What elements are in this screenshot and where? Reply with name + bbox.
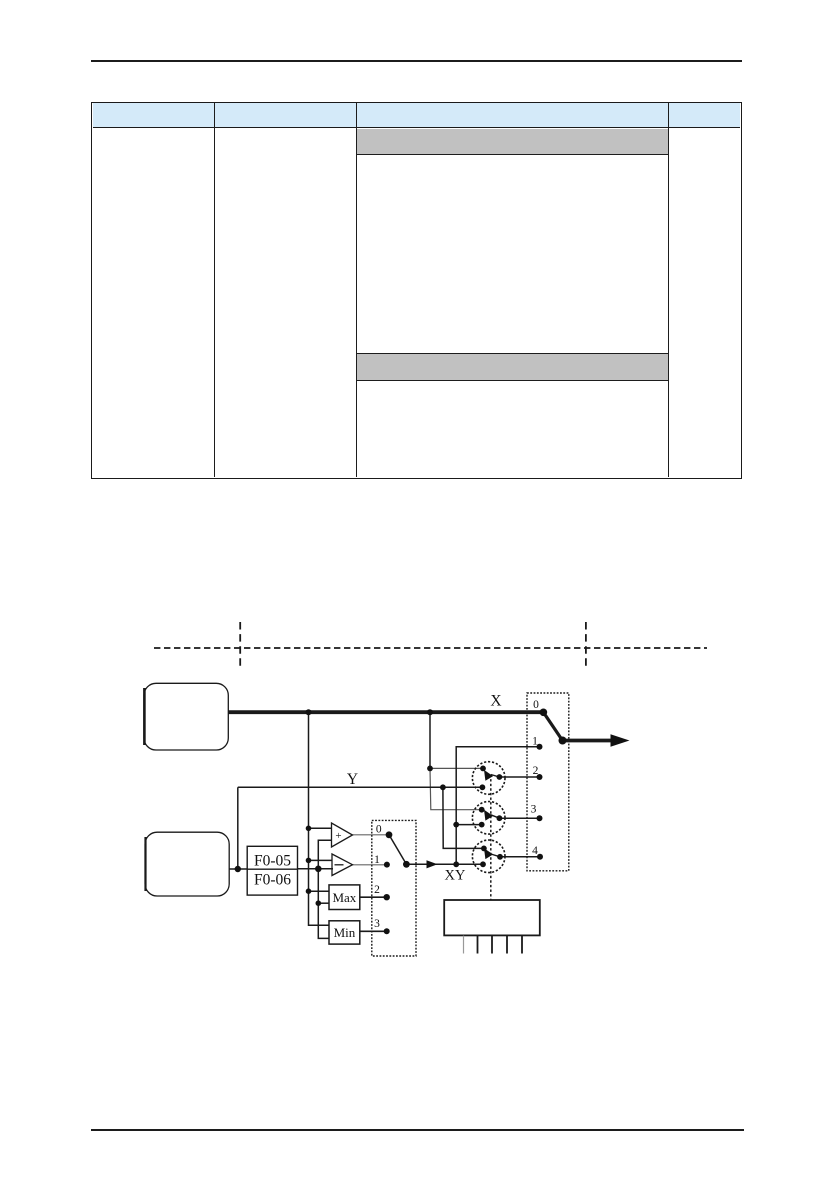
wire: A to subtractor upper input [309,859,333,861]
circle3 right dot [497,854,503,860]
SW2 terminal 0 [540,709,548,717]
junction aux wire to Y riser [235,866,241,872]
circle3 wiper [491,854,500,857]
terminal pin 2 [477,936,479,954]
circle1 upper dot [480,766,486,772]
circle3 lower dot [480,861,486,867]
wire: X to circle1 upper input [430,767,483,769]
wire: XY output run to circle3 lower input [406,863,483,865]
circle2 arrowhead [484,810,493,821]
wire: A to Max upper input [309,890,330,892]
junction X to circle1 [427,766,433,772]
SW1 terminal 2 [384,894,390,900]
wire: heavy left edge of source box [143,688,146,745]
SW1 terminal 1 [384,862,390,868]
minus mark inside subtractor [335,864,344,866]
svg-text:1: 1 [532,736,538,748]
dashed gang control line [490,775,492,901]
parameter table outer border [91,102,742,479]
svg-text:4: 4 [532,845,538,857]
output arrowhead [611,734,630,746]
wire: B to Max lower input [318,902,329,904]
wire: vertical from X line to multiplier column [429,712,431,768]
junction on X at multiplier column [427,709,433,715]
junction B Max [316,900,322,906]
terminal pin 1 (gray) [463,936,465,954]
wire: circle2 to terminal 3 [499,817,539,819]
circle1 lower dot [480,784,486,790]
bottom horizontal rule [91,1129,744,1131]
SW1 terminal 3 [384,928,390,934]
wire: XY to circle2 lower input [456,824,482,826]
rounded box (aux channel source) [145,832,229,896]
circle2 lower dot [479,822,485,828]
circle3 upper dot [481,846,487,852]
svg-text:X: X [490,693,501,710]
gray sub-header bar 1 in column 3 [357,129,668,155]
wire: heavy left edge of aux box [144,837,146,891]
table column border 2 [356,103,357,477]
svg-text:1: 1 [374,854,380,866]
svg-text:3: 3 [374,918,380,930]
wire: circle1 to terminal 2 [499,776,539,778]
gray sub-header bar 2 in column 3 [357,353,668,381]
table column border 1 [214,103,215,477]
svg-text:XY: XY [445,868,466,884]
svg-text:Y: Y [347,771,358,788]
svg-text:2: 2 [533,765,539,777]
SW2 terminal 1 [537,744,543,750]
selector SW2 arm (thick) [543,712,562,740]
svg-text:0: 0 [376,823,382,835]
circle3 arrowhead [484,848,493,859]
terminal pin 4 [506,936,508,954]
rounded box (main channel source) [144,683,228,750]
circle2 wiper [491,815,500,818]
svg-text:F0-06: F0-06 [254,871,291,888]
multiplier circle 1 (dashed) [472,762,505,795]
junction on X at A [306,709,312,715]
circle2 right dot [497,815,503,821]
Min box [329,921,360,944]
wire: A to adder upper input [309,827,332,829]
junction XY riser circle3 [453,861,459,867]
svg-text:F0-05: F0-05 [254,853,291,870]
XY direction arrow [427,860,438,868]
selector SW1 arm [389,835,406,865]
junction A adder [306,826,312,832]
terminal pin 3 [491,936,493,954]
svg-text:Max: Max [332,890,356,905]
thick output wire [563,739,614,743]
multiplier circle 2 (dashed) [472,802,505,835]
junction A subtractor [306,858,312,864]
wire: Y vertical riser [237,787,239,869]
circle1 right dot [497,774,503,780]
selector box SW1 (dotted) [372,820,416,956]
wire: subtractor output to selector1 terminal 1 [353,864,387,866]
wire: vertical A from X line down to Min input [309,712,330,925]
svg-text:+: + [335,830,341,842]
SW1 pivot [403,861,410,868]
SW2 pivot [559,737,567,745]
thick wire X (main frequency) [228,710,543,714]
SW1 terminal 0 [386,831,393,838]
wire: aux source to F0-05 box [229,868,246,870]
subtractor triangle [332,854,353,876]
wire: adder output to selector1 terminal 0 [353,834,390,836]
wire Y horizontal to circle1 lower input [238,786,483,788]
svg-text:2: 2 [374,884,380,896]
junction B fed by F0 wire [315,866,322,873]
wire: Y branch down to circle3 upper input [443,787,484,848]
wire: vertical B feeding adder/Max/Min lower inputs [318,840,331,938]
circle1 arrowhead [484,770,493,781]
svg-text:Min: Min [334,925,356,940]
multiplier circle 3 (dashed) [472,840,505,873]
wire: Max output to selector1 terminal 2 [360,896,387,898]
wire: circle3 to terminal 4 [500,856,540,858]
top horizontal rule [91,60,742,62]
junction A Max [306,888,312,894]
dashed separator horizontal line [154,647,707,649]
wire: XY riser to selector terminal 1 [456,747,539,865]
svg-text:0: 0 [533,699,539,711]
junction XY riser circle2 [453,822,459,828]
wire: Min output to selector1 terminal 3 [360,930,387,932]
wire: X down to circle2 upper input [430,768,482,809]
terminal pin 5 [521,936,523,954]
SW2 terminal 3 [537,815,543,821]
circle2 upper dot [479,807,485,813]
table header row (light blue) [93,103,740,128]
junction Y wire branch [440,784,446,790]
F0-05 / F0-06 parameter box [247,846,297,895]
terminal block [444,900,540,935]
svg-text:3: 3 [531,804,537,816]
selector box SW2 (dotted) [527,693,569,871]
wire: F0 output to subtractor [298,868,333,870]
SW2 terminal 4 [537,854,543,860]
table column border 3 [668,103,669,477]
Max box [329,885,360,910]
SW2 terminal 2 [537,774,543,780]
adder triangle [332,823,353,847]
circle1 wiper [491,775,500,778]
dashed separator tick right [585,622,587,666]
dashed separator tick left [239,622,241,666]
